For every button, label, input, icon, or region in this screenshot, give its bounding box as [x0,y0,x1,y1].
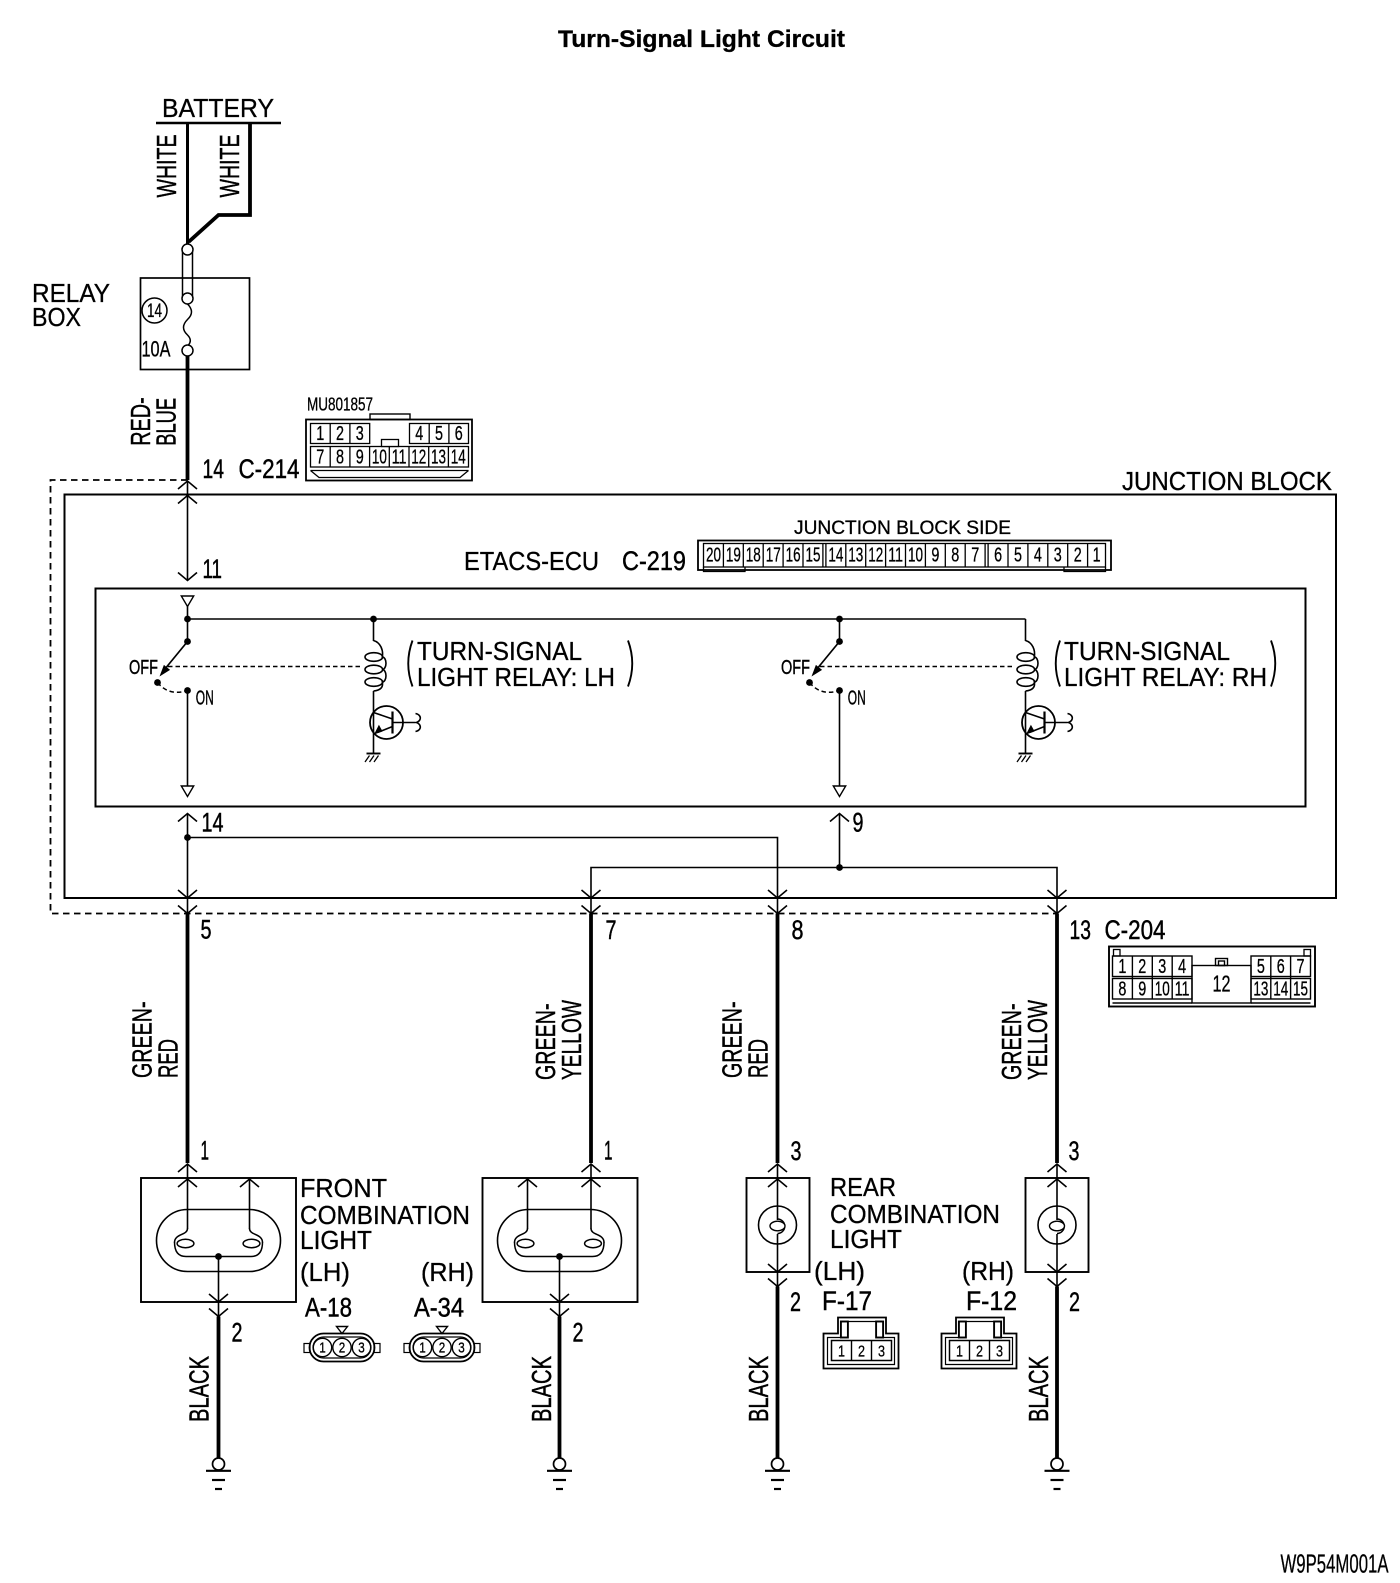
svg-text:8: 8 [1118,979,1126,1001]
svg-text:4: 4 [1178,956,1186,978]
fuse number 14 [142,298,167,323]
wire bulb out front RH [550,1257,569,1317]
transistor LH [370,706,420,739]
svg-text:3: 3 [1158,956,1166,978]
svg-text:12: 12 [411,447,426,469]
svg-text:FRONT: FRONT [300,1173,387,1203]
svg-text:A-34: A-34 [414,1293,464,1323]
svg-text:LIGHT RELAY: LH: LIGHT RELAY: LH [417,662,615,692]
svg-text:3: 3 [1069,1136,1080,1166]
svg-text:BLACK: BLACK [526,1356,557,1422]
svg-text:BLACK: BLACK [184,1356,215,1422]
svg-text:1: 1 [319,1340,326,1357]
svg-text:OFF: OFF [781,657,810,679]
wire green-red rear LH [776,914,780,1164]
svg-text:1: 1 [419,1340,426,1357]
dashed control line LH [168,666,362,668]
svg-text:6: 6 [994,545,1002,567]
svg-text:11: 11 [888,545,903,567]
wire 14 to rear LH [188,838,778,899]
svg-text:10: 10 [908,545,923,567]
wire white 1 [186,123,189,244]
wire green-yellow front RH [589,914,593,1164]
svg-text:1: 1 [838,1344,845,1361]
ground rear LH [765,1458,790,1489]
ETACS-ECU box [96,589,1306,807]
wire green-red front LH [186,914,190,1164]
svg-text:LIGHT: LIGHT [300,1225,372,1255]
svg-text:14: 14 [1273,979,1288,1001]
svg-text:F-12: F-12 [966,1286,1017,1316]
wire black rear LH [776,1287,780,1459]
pin triangle 14 out [181,786,193,797]
svg-text:YELLOW: YELLOW [1022,1000,1053,1080]
svg-text:OFF: OFF [129,657,158,679]
wire black rear RH [1055,1287,1059,1459]
wire red-blue [186,356,190,480]
svg-text:BLUE: BLUE [151,398,182,446]
svg-text:2: 2 [439,1340,446,1357]
wire bulb out LH [209,1257,228,1317]
svg-text:14: 14 [202,808,224,838]
ground transistor LH [365,754,381,763]
svg-text:7: 7 [606,915,617,945]
svg-text:2: 2 [573,1318,584,1348]
svg-text:ON: ON [848,688,866,710]
svg-text:(LH): (LH) [300,1257,350,1287]
svg-text:3: 3 [458,1340,465,1357]
front combination light LH box [141,1164,296,1302]
svg-text:7: 7 [316,447,324,469]
svg-text:(RH): (RH) [421,1257,474,1287]
ground front LH [206,1458,231,1489]
front combination light RH box [483,1164,638,1302]
svg-text:WHITE: WHITE [151,135,182,198]
ground transistor RH [1017,754,1033,763]
svg-text:13: 13 [1070,915,1092,945]
pin triangle 11 [181,596,193,607]
rear combination light LH box [747,1164,810,1272]
svg-text:A-18: A-18 [305,1293,352,1323]
svg-text:12: 12 [868,545,883,567]
svg-text:14: 14 [828,545,843,567]
wire pin14 to pin11 [178,481,197,581]
svg-text:8: 8 [792,915,804,945]
svg-text:(LH): (LH) [814,1256,865,1286]
svg-text:MU801857: MU801857 [307,395,373,415]
svg-text:2: 2 [1138,956,1146,978]
svg-text:11: 11 [392,447,407,469]
svg-text:9: 9 [853,808,864,838]
coil LH [365,619,386,753]
svg-text:JUNCTION BLOCK SIDE: JUNCTION BLOCK SIDE [794,517,1011,539]
svg-text:1: 1 [316,423,324,445]
svg-text:WHITE: WHITE [214,135,245,198]
svg-text:6: 6 [1277,956,1285,978]
battery [156,93,281,123]
svg-text:RED: RED [743,1039,774,1078]
wire bus top [188,618,1026,620]
svg-text:13: 13 [1253,979,1268,1001]
svg-text:4: 4 [1034,545,1042,567]
svg-text:BATTERY: BATTERY [162,93,274,123]
svg-text:7: 7 [1297,956,1305,978]
ground rear RH [1045,1458,1070,1489]
svg-text:16: 16 [786,545,801,567]
svg-text:2: 2 [790,1287,801,1317]
connector F-17 [824,1318,899,1369]
svg-text:C-204: C-204 [1105,915,1166,945]
svg-text:Turn-Signal Light Circuit: Turn-Signal Light Circuit [558,26,845,53]
fuse 14 10A [182,244,193,356]
svg-text:11: 11 [203,554,223,584]
svg-text:3: 3 [996,1344,1003,1361]
svg-text:W9P54M001A: W9P54M001A [1281,1549,1389,1579]
bulb rear LH [759,1206,797,1272]
svg-text:5: 5 [435,423,443,445]
ground front RH [547,1458,572,1489]
label turn-signal light relay RH [1056,636,1276,692]
svg-text:LIGHT: LIGHT [830,1224,902,1254]
coil RH [1017,619,1038,753]
svg-text:5: 5 [1014,545,1022,567]
wire 9 to front RH [591,868,840,899]
svg-text:9: 9 [931,545,939,567]
svg-text:1: 1 [1093,545,1101,567]
svg-text:2: 2 [1074,545,1082,567]
junction block [65,495,1337,899]
svg-text:C-214: C-214 [239,454,300,484]
svg-text:ON: ON [196,688,214,710]
svg-text:5: 5 [201,915,212,945]
svg-text:C-219: C-219 [622,546,686,576]
svg-text:15: 15 [1293,979,1308,1001]
svg-text:5: 5 [1257,956,1265,978]
svg-text:2: 2 [1069,1287,1080,1317]
svg-text:F-17: F-17 [822,1286,872,1316]
svg-text:BOX: BOX [32,302,81,332]
bulb front RH [498,1210,622,1272]
node 9 [836,864,843,871]
wire bulb out rear LH [768,1264,787,1287]
svg-text:10: 10 [1155,979,1170,1001]
svg-text:2: 2 [232,1318,243,1348]
svg-text:7: 7 [971,545,979,567]
svg-text:8: 8 [951,545,959,567]
svg-text:8: 8 [336,447,344,469]
pin triangle 9 out [833,786,845,797]
svg-text:1: 1 [956,1344,963,1361]
svg-text:3: 3 [356,423,364,445]
wire white 2 [189,123,251,242]
node 14 [184,834,191,841]
svg-text:2: 2 [336,423,344,445]
svg-text:REAR: REAR [830,1172,896,1202]
connector C-214 MU801857 [306,395,472,481]
wire node A [187,607,189,620]
svg-text:(RH): (RH) [962,1256,1014,1286]
svg-text:1: 1 [604,1136,613,1166]
svg-text:YELLOW: YELLOW [556,1000,587,1080]
connector A-34 [404,1327,480,1362]
svg-text:3: 3 [358,1340,365,1357]
svg-text:19: 19 [726,545,741,567]
connector C-204 [1109,947,1315,1007]
svg-text:12: 12 [1213,971,1231,997]
svg-text:14: 14 [451,447,466,469]
svg-text:2: 2 [858,1344,865,1361]
svg-text:ETACS-ECU: ETACS-ECU [464,546,599,576]
bulb front LH [157,1210,281,1272]
svg-text:3: 3 [1054,545,1062,567]
svg-text:10A: 10A [142,337,171,362]
connector F-12 [942,1318,1017,1369]
svg-text:4: 4 [415,423,423,445]
wire green-yellow rear RH [1055,914,1059,1164]
junction block exit arrows [178,890,1067,914]
dashed control line RH [820,666,1014,668]
rear combination light RH box [1026,1164,1089,1272]
switch RH [806,616,843,786]
svg-text:6: 6 [455,423,463,445]
wire black front LH [217,1317,221,1459]
svg-text:LIGHT RELAY: RH: LIGHT RELAY: RH [1064,662,1267,692]
connector C-219 junction block side [698,517,1111,572]
wire 9 to rear RH [840,868,1058,899]
svg-text:BLACK: BLACK [1023,1356,1054,1422]
wire out 14 [178,814,197,899]
svg-text:10: 10 [372,447,387,469]
svg-text:9: 9 [1138,979,1146,1001]
svg-text:1: 1 [1118,956,1126,978]
svg-text:14: 14 [203,454,225,484]
wire black front RH [558,1317,562,1459]
connector A-18 [304,1327,380,1362]
svg-text:3: 3 [791,1136,802,1166]
wire out 9 [830,814,849,868]
connector boundary dashed line [51,480,1058,914]
svg-text:20: 20 [706,545,721,567]
svg-text:13: 13 [431,447,446,469]
relay box [141,278,250,370]
svg-text:2: 2 [339,1340,346,1357]
switch LH [154,619,191,786]
label turn-signal light relay LH [408,636,632,692]
wire bulb out rear RH [1048,1264,1067,1287]
svg-text:BLACK: BLACK [743,1356,774,1422]
label FRONT COMBINATION LIGHT [300,1173,470,1255]
svg-text:13: 13 [848,545,863,567]
svg-text:17: 17 [766,545,781,567]
svg-text:11: 11 [1175,979,1190,1001]
svg-text:JUNCTION BLOCK: JUNCTION BLOCK [1122,466,1333,496]
svg-text:RED: RED [153,1039,184,1078]
svg-text:3: 3 [878,1344,885,1361]
svg-text:9: 9 [356,447,364,469]
label REAR COMBINATION LIGHT [830,1172,1000,1254]
svg-text:18: 18 [746,545,761,567]
svg-text:2: 2 [976,1344,983,1361]
svg-text:14: 14 [147,301,162,322]
transistor RH [1022,706,1072,739]
svg-text:15: 15 [806,545,821,567]
bulb rear RH [1038,1206,1076,1272]
svg-text:1: 1 [201,1136,210,1166]
